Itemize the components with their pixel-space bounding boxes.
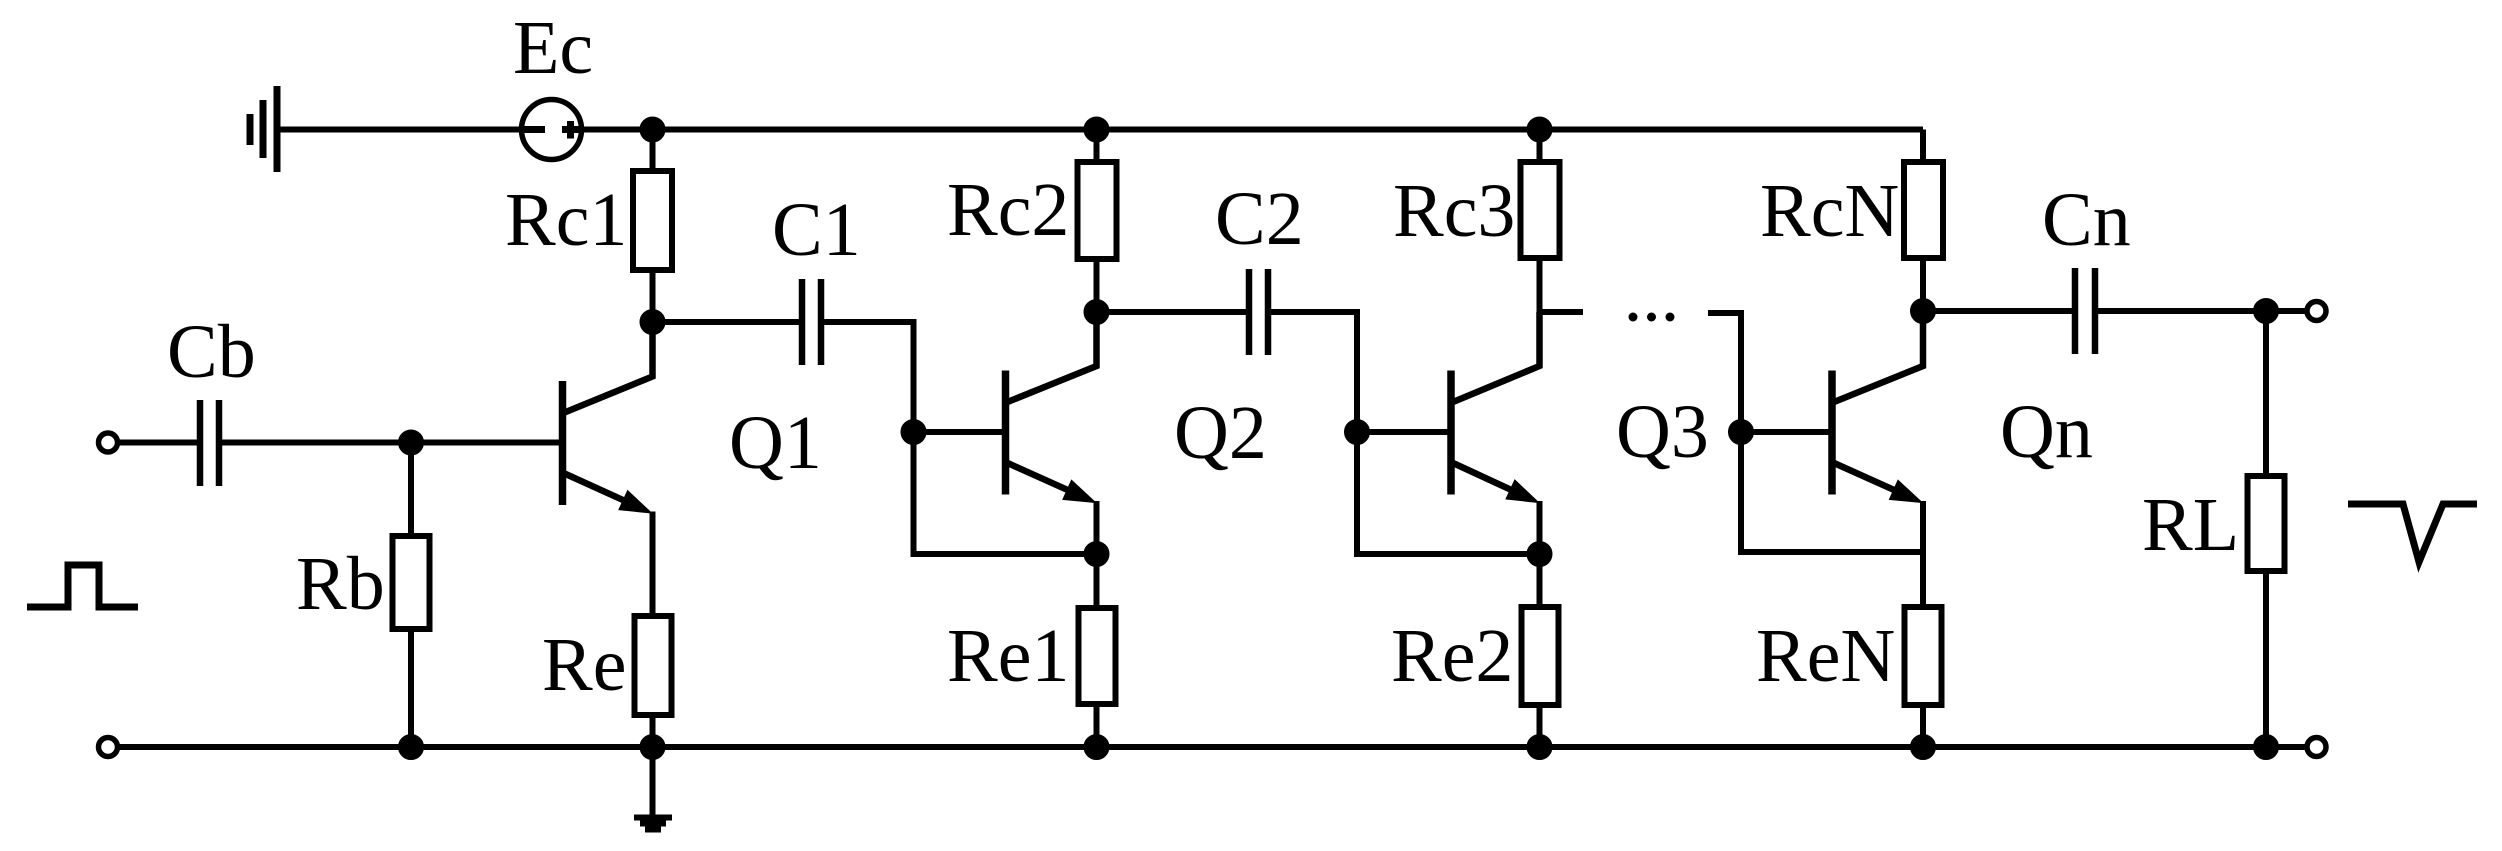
ellipsis (omitted stages)	[1629, 313, 1674, 321]
wire Ec to top supply rail	[581, 127, 1923, 133]
wire bottom rail to bottom-right terminal	[2266, 744, 2305, 750]
svg-text:Cb: Cb	[167, 310, 256, 394]
wire base column Q3 down to emitter junction	[1357, 432, 1540, 554]
wire collector Q2 to C2	[1097, 309, 1247, 315]
svg-text:RL: RL	[2142, 483, 2239, 567]
wire top rail corner down to RcN	[1920, 130, 1926, 160]
node collector Q2 / C2	[1084, 300, 1109, 325]
resistor Rc3	[1521, 162, 1560, 258]
wire Rc3 to collector node	[1537, 261, 1543, 312]
wire Re1 to bottom rail	[1094, 707, 1100, 747]
output pulse waveform symbol	[2348, 504, 2477, 562]
transistor Q2 base bar	[1002, 371, 1010, 495]
wire Rb to bottom rail	[408, 632, 414, 747]
label Q3	[1616, 390, 1709, 474]
node base of Q2	[901, 420, 926, 445]
svg-text:Re1: Re1	[947, 614, 1069, 698]
node ReN / bottom rail	[1911, 735, 1936, 760]
node top rail / Rc3	[1527, 117, 1552, 142]
capacitor Cb	[200, 400, 219, 486]
wire Q2 emitter down	[1094, 501, 1100, 554]
wire C1 to base column of Q2	[824, 322, 914, 432]
wire Cn to output node	[2098, 308, 2266, 314]
node base of Q1 / Rb	[399, 430, 424, 455]
transistor Qn base bar	[1828, 371, 1836, 495]
wire collector Q3 stub (to dots)	[1540, 309, 1584, 315]
svg-text:Re: Re	[542, 623, 626, 707]
node Re2 / bottom rail	[1527, 735, 1552, 760]
capacitor C2	[1249, 269, 1268, 355]
label Re2	[1391, 614, 1513, 698]
transistor Q3 collector	[1453, 312, 1540, 402]
svg-text:Rc2: Rc2	[947, 168, 1069, 252]
svg-text:RcN: RcN	[1760, 169, 1899, 253]
label RL	[2142, 483, 2239, 567]
label Rc1	[505, 178, 627, 262]
transistor Q3 base bar	[1447, 371, 1455, 495]
transistor Q1 base bar	[559, 381, 567, 505]
node output / RL	[2254, 299, 2279, 324]
resistor Re1	[1079, 608, 1116, 704]
wire C2 to base column of Q3	[1271, 312, 1357, 432]
wire Cb to base node of Q1	[222, 440, 560, 446]
bottom-right terminal (bottom port)	[2307, 738, 2326, 757]
transistor Q2 emitter with arrow	[1008, 463, 1096, 503]
wire base node Qn to base	[1741, 429, 1829, 435]
bottom rail (ground return)	[118, 744, 2267, 750]
transistor Qn emitter with arrow	[1834, 463, 1922, 503]
transistor Q2 collector	[1008, 312, 1097, 402]
label Re	[542, 623, 626, 707]
svg-text:Cn: Cn	[2042, 178, 2131, 262]
wire Q3 emitter down	[1537, 501, 1543, 554]
label Cb	[167, 310, 256, 394]
label RcN	[1760, 169, 1899, 253]
node Rb / bottom rail	[399, 735, 424, 760]
resistor ReN	[1905, 607, 1942, 705]
svg-text:Q2: Q2	[1174, 391, 1267, 475]
ground (top-left, supply return)	[250, 86, 277, 172]
voltage source Ec (battery symbol)	[522, 100, 582, 160]
transistor Q1 emitter with arrow	[565, 474, 652, 514]
node emitter Q3 junction	[1527, 542, 1552, 567]
svg-text:C2: C2	[1215, 177, 1304, 261]
label Rb	[296, 542, 385, 626]
label Q1	[729, 401, 822, 485]
label Q2	[1174, 391, 1267, 475]
resistor Re2	[1522, 607, 1559, 705]
svg-text:Rc3: Rc3	[1393, 169, 1515, 253]
wire output node down to RL	[2263, 311, 2269, 473]
svg-text:Q1: Q1	[729, 401, 822, 485]
label Rc3	[1393, 169, 1515, 253]
node collector Q1 / C1	[640, 310, 665, 335]
resistor Re	[635, 616, 672, 715]
transistor Q3 emitter with arrow	[1453, 463, 1539, 503]
label Ec	[513, 6, 593, 90]
svg-text:Rb: Rb	[296, 542, 385, 626]
label Re1	[947, 614, 1069, 698]
wire emitter junction to Re2	[1537, 554, 1543, 604]
resistor Rc2	[1078, 162, 1117, 259]
resistor Rc1	[633, 171, 672, 270]
wire ReN to bottom rail	[1920, 708, 1926, 747]
resistor RcN	[1904, 162, 1943, 258]
node top rail / Rc1	[640, 117, 665, 142]
wire Re2 to bottom rail	[1537, 708, 1543, 747]
resistor RL	[2248, 476, 2285, 571]
svg-text:Ec: Ec	[513, 6, 593, 90]
input terminal (top-left port)	[99, 433, 118, 452]
transistor Q1 collector	[565, 322, 653, 413]
svg-text:C1: C1	[772, 188, 861, 272]
label Cn	[2042, 178, 2131, 262]
node Re1 / bottom rail	[1084, 735, 1109, 760]
wire base column Qn down to emitter junction	[1741, 432, 1923, 552]
wire base node to Rb	[408, 443, 414, 534]
label Rc2	[947, 168, 1069, 252]
wire Re to bottom rail	[650, 718, 656, 747]
node collector Qn / Cn	[1911, 299, 1936, 324]
wire Rc2 to collector node	[1094, 262, 1100, 312]
wire top rail to Rc1	[650, 130, 656, 169]
node base of Qn	[1729, 420, 1754, 445]
node emitter Q2 junction	[1084, 542, 1109, 567]
wire base node Q2 to base	[914, 429, 1004, 435]
wire top rail to Rc2	[1094, 130, 1100, 160]
capacitor Cn	[2075, 268, 2095, 354]
wire base node Q3 to base	[1357, 429, 1449, 435]
svg-text:Rc1: Rc1	[505, 178, 627, 262]
node RL / bottom rail	[2254, 735, 2279, 760]
capacitor C1	[802, 279, 821, 365]
wire top rail to Rc3	[1537, 130, 1543, 160]
wire collector Qn to Cn	[1923, 308, 2072, 314]
svg-text:ReN: ReN	[1756, 614, 1895, 698]
wire output node to output terminal	[2266, 308, 2305, 314]
wire collector Q1 to C1	[653, 319, 800, 325]
bottom-left terminal	[99, 738, 118, 757]
svg-text:Re2: Re2	[1391, 614, 1513, 698]
wire RL to bottom rail	[2263, 574, 2269, 747]
wire Rc1 to collector node	[650, 273, 656, 322]
label C2	[1215, 177, 1304, 261]
svg-text:Qn: Qn	[2000, 390, 2093, 474]
wire input to Cb	[118, 440, 198, 446]
label C1	[772, 188, 861, 272]
wire Q1 emitter down	[650, 512, 656, 614]
wire emitter junction to Re1	[1094, 554, 1100, 605]
label Qn	[2000, 390, 2093, 474]
transistor Qn collector	[1834, 311, 1923, 402]
svg-text:Q3: Q3	[1616, 390, 1709, 474]
node top rail / Rc2	[1084, 117, 1109, 142]
resistor Rb	[393, 536, 430, 629]
ground (below Re)	[634, 747, 672, 830]
node base of Q3	[1345, 420, 1370, 445]
output terminal (top-right port)	[2307, 302, 2326, 321]
input pulse waveform symbol	[27, 565, 138, 607]
label ReN	[1756, 614, 1895, 698]
wire base column Q2 down to emitter junction	[914, 432, 1097, 554]
node Re / bottom rail	[640, 735, 665, 760]
wire stub to base column of Qn	[1708, 313, 1741, 432]
wire ground to Ec source	[280, 127, 521, 133]
wire Qn emitter down	[1920, 501, 1926, 604]
wire RcN to collector node	[1920, 261, 1926, 311]
